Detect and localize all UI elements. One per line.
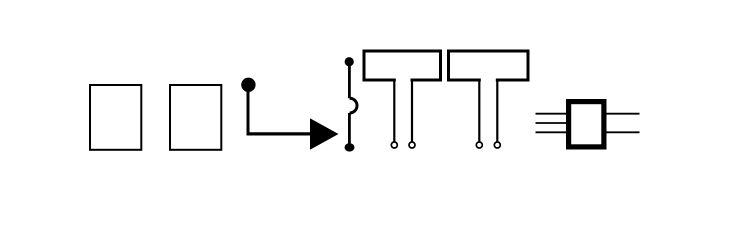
wire (T2 left lead): [478, 80, 480, 142]
wire (lower segment of female contact): [348, 113, 351, 146]
wire (U1 left pin 3): [536, 131, 567, 133]
wire (U1 right pin 1): [607, 113, 640, 115]
IC U1 body: [569, 102, 604, 147]
terminal circle (T1 pin 2): [409, 142, 415, 148]
component box 1: [90, 85, 141, 150]
wire (T1 right lead): [411, 80, 413, 142]
terminal circle (T2 pin 2): [494, 142, 500, 148]
wire (horizontal to arrow): [247, 132, 315, 135]
wire (T2 right lead): [496, 80, 498, 142]
T-pad T1 body outline: [364, 51, 441, 82]
wire (U1 left pin 2): [536, 122, 567, 124]
component box 2: [170, 85, 221, 150]
wire (upper segment of female contact): [348, 63, 351, 98]
wire (U1 right pin 2): [607, 131, 640, 133]
node B (top terminal dot of female contact): [345, 57, 354, 66]
arrowhead (signal direction): [310, 118, 339, 150]
node C (bottom terminal dot of female contact): [345, 143, 355, 151]
female contact arc J1: [350, 98, 357, 113]
terminal circle (T2 pin 1): [476, 142, 482, 148]
wire (vertical from node A): [247, 90, 250, 134]
terminal circle (T1 pin 1): [391, 142, 397, 148]
node A (junction dot): [241, 78, 255, 92]
T-pad T2 body outline: [449, 51, 529, 82]
wire (U1 left pin 1): [536, 113, 567, 115]
wire (T1 left lead): [393, 80, 395, 142]
